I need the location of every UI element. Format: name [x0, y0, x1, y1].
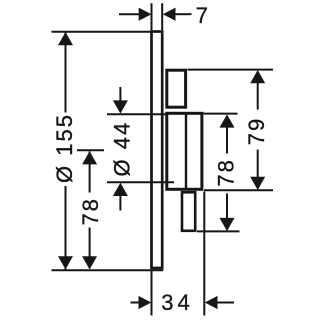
- svg-text:78: 78: [214, 158, 239, 186]
- dimension 79: dim line upper part: [257, 83, 259, 110]
- dimension O44: upper arrow leader: [119, 87, 121, 101]
- arrow 78 left top (points up): [82, 151, 97, 164]
- svg-text:78: 78: [78, 197, 103, 225]
- dimension 78 left: dim line upper part: [89, 152, 91, 193]
- dimension 78 right: top extension line: [204, 113, 238, 115]
- plate (escutcheon side view): [152, 32, 163, 269]
- arrow 78 right bottom (points down): [220, 218, 235, 231]
- arrow O44 top (points down): [113, 100, 128, 113]
- arrow 34 left (points right): [139, 296, 152, 309]
- svg-text:79: 79: [244, 117, 269, 145]
- arrow 78 right top (points up): [220, 114, 235, 127]
- dimension O155: dim line upper part: [65, 32, 67, 113]
- dimension 78 right: bottom extension line: [197, 230, 240, 232]
- svg-text:Ø 44: Ø 44: [109, 121, 134, 177]
- dimension 7: right dim line: [176, 13, 192, 15]
- svg-text:34: 34: [161, 290, 193, 315]
- dimension O44: top extension line: [107, 113, 166, 115]
- dimension 78 left: dim line lower part: [89, 228, 91, 269]
- arrow 79 top (points up): [250, 70, 265, 83]
- arrow 79 bottom (points down): [250, 177, 265, 190]
- dimension O155: top extension line: [52, 31, 151, 33]
- svg-text:7: 7: [196, 3, 208, 28]
- lower block (lower sleeve): [182, 192, 195, 231]
- inner edge line in wide block: [185, 115, 187, 189]
- arrow O155 top (points up): [58, 32, 73, 45]
- arrow 7 left (points right): [139, 8, 152, 21]
- dimension 34: right dim line: [218, 302, 235, 304]
- arrow 7 right (points left): [163, 8, 176, 21]
- dimension 78 right: dim line upper part: [226, 127, 228, 154]
- dimension 34: left extension line (plate left edge down): [151, 270, 153, 316]
- dimension O155: bottom extension line: [52, 269, 164, 271]
- dimension 79: top extension line: [188, 69, 274, 71]
- upper block (stop button): [167, 70, 186, 107]
- arrow 34 right (points left): [205, 296, 218, 309]
- arrow 78 left bottom (points down): [82, 256, 97, 269]
- dimension O155: dim line lower part: [65, 186, 67, 270]
- arrow O155 bottom (points down): [58, 256, 73, 269]
- dimension O44: lower arrow leader: [119, 195, 121, 210]
- dimension 34: right extension line: [203, 192, 205, 316]
- svg-text:Ø 155: Ø 155: [52, 113, 77, 183]
- wide block (handle housing): [167, 113, 202, 189]
- dimension 79: dim line lower part: [257, 150, 259, 179]
- dimension O44: bottom extension line: [107, 181, 174, 183]
- dimension 7: extension line left (plate left edge up): [151, 3, 153, 30]
- dimension 79: bottom extension line: [204, 189, 273, 191]
- dimension 78 left: centerline tick: [77, 149, 104, 151]
- dimension 34: left dim line: [131, 302, 140, 304]
- dimension 7: left dim line: [119, 13, 139, 15]
- dimension 78 right: dim line lower part: [226, 194, 228, 219]
- dimension 7: extension line right (plate right edge up): [161, 3, 163, 30]
- arrow O44 bottom (points up): [113, 183, 128, 196]
